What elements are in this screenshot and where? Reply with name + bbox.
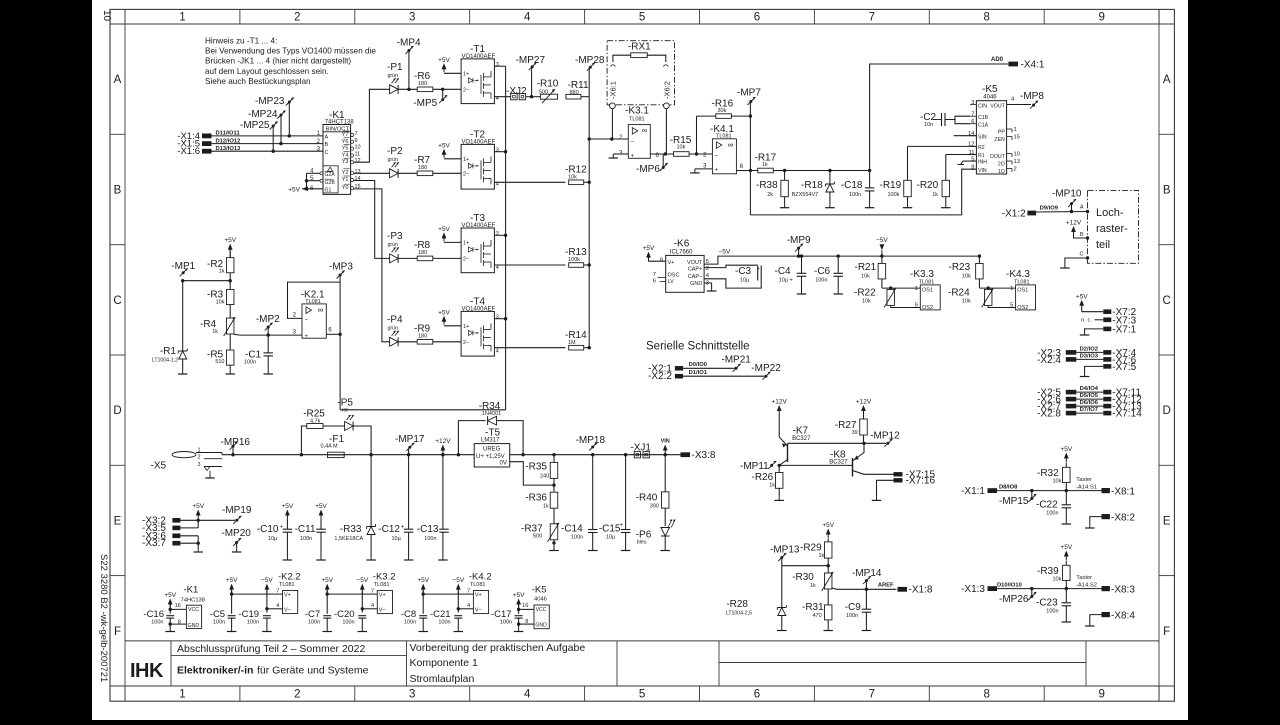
resistor R29 (800, 539, 832, 573)
connector X1:2 with net D9/IO9 (1002, 205, 1089, 220)
svg-text:-X2:8: -X2:8 (1037, 409, 1061, 420)
svg-text:8: 8 (984, 689, 990, 701)
svg-text:1k: 1k (212, 329, 218, 335)
svg-text:2: 2 (294, 12, 300, 24)
resistor R39 (1037, 561, 1070, 590)
svg-text:7: 7 (276, 588, 279, 594)
svg-text:F: F (114, 626, 121, 638)
svg-text:-C23: -C23 (1036, 598, 1058, 609)
svg-text:SIN: SIN (978, 134, 987, 140)
+12V arrow at C13 node (435, 438, 451, 456)
svg-text:Y3: Y3 (342, 159, 349, 165)
svg-text:10µ: 10µ (740, 278, 750, 284)
svg-text:-X3:7: -X3:7 (142, 538, 166, 549)
svg-text:100n: 100n (424, 536, 436, 542)
resistor RX1 (610, 53, 668, 67)
wire T3 pin4 to R13 (494, 264, 565, 266)
svg-text:-P1: -P1 (387, 62, 403, 73)
svg-text:−5V: −5V (876, 237, 888, 244)
svg-text:2−: 2− (463, 172, 469, 178)
measurement point MP14 (852, 568, 882, 589)
frame column numbers top and bottom (125, 9, 1159, 701)
svg-text:180: 180 (418, 81, 427, 87)
connector X8:3 (1102, 585, 1136, 596)
wire R21 to K3.3 pin1 (882, 279, 920, 290)
svg-text:3: 3 (496, 231, 499, 237)
svg-text:C: C (113, 295, 121, 307)
decoder U K1 74HCT138 (310, 110, 360, 194)
measurement point MP3 (329, 262, 353, 283)
svg-text:10µ: 10µ (606, 535, 616, 541)
svg-text:GND: GND (188, 623, 200, 629)
title block profession (177, 665, 369, 677)
wire K1 pin13 to LED P2 (354, 172, 390, 174)
svg-text:-MP28: -MP28 (575, 55, 605, 66)
measurement point MP28 (575, 55, 605, 97)
svg-text:100n: 100n (438, 619, 450, 625)
svg-text:rot: rot (342, 408, 349, 414)
svg-text:-R28: -R28 (726, 599, 748, 610)
svg-text:100n: 100n (571, 535, 583, 541)
zener diode R18 BZX554V7 (792, 171, 835, 208)
resistor R21 (855, 256, 886, 279)
svg-text:CAP+: CAP+ (688, 267, 703, 273)
wire K3.1 output to R15 (650, 153, 673, 155)
connector X7:2 (1103, 307, 1136, 318)
svg-text:-X3:8: -X3:8 (692, 450, 716, 461)
optocoupler T1 VO1400AEF (461, 44, 499, 104)
svg-text:LT1004-1,2: LT1004-1,2 (152, 358, 178, 364)
svg-text:+5V: +5V (643, 245, 655, 252)
svg-text:1k: 1k (219, 269, 225, 275)
svg-text:Bei Verwendung des Typs VO1400: Bei Verwendung des Typs VO1400 müssen di… (205, 47, 376, 56)
svg-text:2: 2 (198, 455, 201, 461)
measurement point MP7 (737, 87, 761, 116)
note text Hinweis zu -T1...4 (205, 37, 376, 86)
svg-text:-C10: -C10 (257, 524, 279, 535)
svg-text:BZX554V7: BZX554V7 (792, 192, 819, 198)
svg-text:+: + (631, 154, 635, 160)
svg-text:100n: 100n (846, 613, 858, 619)
svg-text:V+: V+ (475, 592, 482, 598)
T5 adjust wire to R35/R36 node (510, 462, 554, 485)
svg-text:D6/IO6: D6/IO6 (1080, 400, 1099, 406)
svg-text:−5V: −5V (452, 577, 464, 584)
resistor R26 (752, 465, 784, 500)
svg-text:ICL7660: ICL7660 (670, 249, 693, 255)
svg-text:Loch-: Loch- (1096, 207, 1124, 219)
svg-text:-R26: -R26 (752, 472, 774, 483)
gate bus from T pin3 outputs (494, 66, 507, 410)
svg-text:1k: 1k (819, 553, 825, 559)
svg-text:+5V: +5V (226, 577, 238, 584)
resistor R13 (565, 247, 587, 267)
svg-text:V+: V+ (284, 592, 291, 598)
svg-text:13: 13 (355, 169, 361, 175)
optocoupler T2 VO1400AEF (461, 130, 499, 189)
trimmer R37 (521, 523, 559, 551)
svg-text:IHK: IHK (130, 660, 164, 682)
svg-text:+: + (715, 168, 719, 174)
svg-text:-C3: -C3 (735, 266, 752, 277)
svg-text:100n: 100n (849, 192, 861, 198)
supply block K3.2 with C7 C20 (305, 572, 396, 632)
svg-text:5: 5 (639, 689, 645, 701)
Lochrasterteil dashed block (1088, 190, 1139, 263)
svg-text:-MP26: -MP26 (999, 594, 1029, 605)
wire R13 to summing bus (584, 263, 591, 266)
svg-text:+5V: +5V (438, 309, 450, 316)
svg-text:-A14.S2: -A14.S2 (1076, 583, 1097, 589)
wire R19 to K5 pin12 (908, 145, 977, 147)
resistor R9 (414, 323, 433, 344)
connector X7:5 grounded (1080, 362, 1137, 377)
svg-text:D3/IO3: D3/IO3 (1080, 353, 1099, 359)
svg-text:-R38: -R38 (756, 180, 778, 191)
svg-text:B: B (1080, 232, 1084, 238)
external resistor RX1 dashed block (607, 41, 674, 105)
svg-text:10k: 10k (1053, 479, 1062, 485)
svg-text:10: 10 (101, 10, 112, 22)
connector X1:4 X1:5 X1:6 (177, 131, 211, 157)
measurement point MP1 (171, 261, 195, 282)
connector X2:2 with net D1/IO1 (648, 370, 764, 382)
capacitor C11 (295, 503, 328, 560)
LED P3 (387, 231, 403, 263)
wire R12 to summing bus (584, 181, 591, 184)
svg-text:10: 10 (355, 145, 361, 151)
svg-text:14: 14 (355, 176, 361, 182)
svg-text:-X6:1: -X6:1 (609, 81, 618, 99)
svg-text:A: A (114, 74, 122, 86)
svg-text:100n: 100n (404, 619, 416, 625)
capacitor C23 (1036, 589, 1071, 622)
svg-text:+5V: +5V (282, 503, 294, 510)
svg-text:-MP10: -MP10 (1052, 189, 1082, 200)
LED P5 (323, 398, 371, 455)
svg-text:U+ +1,25V: U+ +1,25V (476, 454, 505, 460)
svg-text:-K1: -K1 (184, 584, 199, 595)
svg-text:Y7: Y7 (342, 132, 349, 138)
svg-text:OSC: OSC (668, 273, 680, 279)
voltage regulator T5 LM317 (474, 428, 510, 468)
PLL K5 4046 (968, 84, 1020, 175)
svg-text:+5V: +5V (164, 592, 176, 599)
svg-text:-K3.3: -K3.3 (910, 269, 934, 280)
measurement point MP16 (221, 437, 251, 456)
svg-text:-MP20: -MP20 (221, 528, 251, 539)
svg-text:−: − (631, 139, 635, 145)
svg-text:-MP25: -MP25 (240, 120, 270, 131)
+5V supply at R39 (1064, 551, 1069, 557)
svg-text:4: 4 (496, 265, 499, 271)
svg-text:180: 180 (418, 333, 427, 339)
measurement point MP23 (255, 96, 294, 138)
potentiometer R4 (200, 305, 235, 337)
charge pump K6 ICL7660 (653, 239, 710, 293)
svg-text:-C22: -C22 (1036, 500, 1058, 511)
trimmer R30 (792, 572, 833, 591)
svg-text:100n: 100n (342, 619, 354, 625)
capacitor C10 electrolytic (257, 503, 294, 560)
svg-text:B: B (114, 184, 122, 196)
measurement point MP15 (999, 489, 1036, 507)
svg-text:-R20: -R20 (917, 180, 939, 191)
wire T1 pin4 to XJ2 (494, 96, 510, 98)
svg-text:1k: 1k (810, 583, 816, 589)
wire K2.1 output to gate bus (326, 282, 505, 410)
connector X8:1 (1102, 487, 1136, 498)
svg-text:Serielle Schnittstelle: Serielle Schnittstelle (646, 341, 750, 353)
svg-text:10k: 10k (862, 299, 871, 305)
svg-text:-K5: -K5 (982, 84, 998, 95)
svg-text:-C11: -C11 (295, 524, 316, 535)
svg-text:9: 9 (1098, 12, 1104, 24)
svg-text:100n: 100n (815, 278, 827, 284)
+5V supply above R2 (228, 244, 233, 250)
resistor R40 (636, 455, 669, 526)
svg-text:880: 880 (570, 90, 579, 96)
svg-text:Hinweis zu -T1 ... 4:: Hinweis zu -T1 ... 4: (205, 37, 277, 46)
+5V arrow for T3 (442, 232, 447, 238)
connector X5 jack (151, 448, 223, 479)
svg-text:4: 4 (524, 689, 531, 701)
svg-text:12: 12 (355, 158, 361, 164)
trimmer R22 (854, 288, 920, 308)
+5V arrow at X3:2 (196, 510, 201, 516)
svg-text:-R29: -R29 (800, 543, 822, 554)
svg-text:D4/IO4: D4/IO4 (1080, 386, 1099, 392)
svg-text:TL081: TL081 (374, 582, 390, 588)
svg-text:A: A (1163, 74, 1171, 86)
resistor R6 (414, 71, 433, 92)
connector X6:1 (609, 81, 618, 109)
summing bus vertical (588, 97, 590, 348)
svg-text:-MP18: -MP18 (576, 435, 606, 446)
svg-text:-MP1: -MP1 (171, 261, 195, 272)
svg-text:VOUT: VOUT (990, 103, 1005, 109)
wire X6:2 to K3.1 output (664, 109, 667, 156)
svg-text:100n: 100n (244, 359, 256, 365)
svg-text:10µ: 10µ (268, 536, 278, 542)
svg-text:-C15: -C15 (599, 524, 621, 535)
svg-text:-K3.2: -K3.2 (373, 572, 396, 583)
svg-text:-R39: -R39 (1037, 566, 1059, 577)
svg-text:R2: R2 (978, 145, 985, 151)
svg-text:-X1:8: -X1:8 (909, 585, 933, 596)
wire +5V to K6 pin8 (649, 260, 666, 262)
svg-text:∞: ∞ (318, 305, 324, 314)
svg-text:Taster: Taster (1076, 575, 1092, 581)
svg-text:1+: 1+ (463, 324, 469, 330)
svg-text:10k: 10k (962, 274, 971, 280)
svg-text:G2B: G2B (325, 180, 336, 186)
svg-text:D7/IO7: D7/IO7 (1080, 407, 1098, 413)
resistor R27 (835, 399, 872, 445)
svg-text:S22 3280 B2 -wk-gelb-200721: S22 3280 B2 -wk-gelb-200721 (98, 554, 109, 682)
svg-text:Y6: Y6 (342, 139, 349, 145)
measurement point MP19 (222, 505, 252, 524)
svg-text:7: 7 (869, 689, 875, 701)
svg-text:4046: 4046 (534, 597, 547, 603)
svg-text:VOUT: VOUT (687, 260, 703, 266)
svg-text:100n: 100n (1046, 511, 1058, 517)
connector X7:6 (1103, 355, 1136, 366)
resistor R32 (1037, 463, 1070, 492)
capacitor C3 (704, 265, 761, 288)
connector X1:3 with net D10/IO10 (961, 583, 1101, 596)
svg-text:2−: 2− (463, 257, 469, 263)
svg-text:OS1: OS1 (1017, 288, 1028, 294)
svg-text:CIN: CIN (978, 103, 987, 109)
wire R20 to K5 pin11 (946, 154, 977, 156)
svg-text:-MP8: -MP8 (1020, 91, 1044, 102)
connector X2:3 with net D2/IO2 (1037, 346, 1103, 358)
svg-text:∞: ∞ (728, 140, 734, 149)
svg-text:D: D (1163, 405, 1171, 417)
connector X8:4 grounded (1085, 611, 1135, 627)
svg-text:2: 2 (294, 689, 300, 701)
svg-text:-MP6: -MP6 (636, 164, 660, 175)
svg-text:-RX1: -RX1 (628, 41, 651, 52)
svg-text:6: 6 (754, 689, 760, 701)
svg-text:-C4: -C4 (775, 266, 792, 277)
svg-text:1O: 1O (998, 169, 1005, 175)
svg-text:-R19: -R19 (880, 180, 902, 191)
svg-text:100n: 100n (308, 619, 320, 625)
wire summing bus to K3.1 inverting input (588, 137, 629, 140)
connector X3:8 (681, 450, 716, 461)
svg-text:3: 3 (409, 12, 415, 24)
svg-text:+5V: +5V (822, 522, 834, 529)
resistor R11 (566, 80, 589, 99)
svg-text:5: 5 (639, 12, 645, 24)
svg-text:-R23: -R23 (949, 262, 971, 273)
svg-text:+5V: +5V (321, 577, 333, 584)
svg-text:100n: 100n (1046, 609, 1058, 615)
svg-text:INH: INH (978, 160, 987, 166)
svg-text:-MP17: -MP17 (395, 434, 425, 445)
wire R4 wiper to K2.1 (234, 333, 302, 336)
+5V supply at R32 (1064, 453, 1069, 459)
svg-text:-X4:1: -X4:1 (1021, 59, 1045, 70)
capacitor C1 (244, 335, 273, 374)
capacitor C4 (775, 254, 807, 294)
svg-text:-A14.S1: -A14.S1 (1076, 485, 1097, 491)
svg-text:PP: PP (998, 130, 1005, 136)
svg-text:-MP4: -MP4 (397, 37, 421, 48)
wires X1 to K1 inputs (212, 136, 324, 151)
K6 GND pin to ground (704, 283, 716, 291)
optocoupler T4 VO1400AEF (461, 297, 499, 357)
svg-text:C: C (325, 150, 329, 156)
svg-text:390: 390 (650, 504, 659, 510)
svg-text:0V: 0V (500, 461, 507, 467)
svg-text:16: 16 (522, 603, 528, 609)
svg-text:1k: 1k (762, 162, 768, 168)
svg-text:0,4A M: 0,4A M (321, 443, 339, 449)
svg-text:OS2: OS2 (1017, 305, 1028, 311)
resistor R31 (802, 589, 833, 630)
svg-text:−5V: −5V (719, 249, 731, 256)
measurement point MP26 (999, 587, 1036, 605)
fuse F1 (321, 434, 345, 458)
wire K7 base to R27 node (788, 442, 865, 444)
svg-text:V+: V+ (379, 592, 386, 598)
svg-text:+: + (305, 334, 309, 340)
svg-text:Siehe auch Bestückungsplan: Siehe auch Bestückungsplan (205, 77, 311, 86)
svg-text:+5V: +5V (417, 577, 429, 584)
svg-text:LM317: LM317 (481, 438, 500, 444)
LED P4 (387, 314, 403, 346)
svg-text:Y1: Y1 (342, 177, 349, 183)
wire LED to T3 (398, 257, 461, 259)
resistor R12 (565, 165, 587, 185)
feedback wire to R16 (697, 116, 716, 154)
svg-text:11: 11 (355, 151, 361, 157)
svg-text:3: 3 (496, 62, 499, 68)
svg-text:5: 5 (1010, 303, 1013, 309)
measurement point MP25 (240, 120, 278, 153)
svg-text:-X2:2: -X2:2 (648, 371, 672, 382)
wire XJ2 to R10 (526, 95, 540, 98)
K1 enable wiring to +5V (288, 173, 323, 193)
svg-text:-C18: -C18 (841, 180, 863, 191)
svg-text:-R40: -R40 (636, 493, 658, 504)
+5V arrow for T2 (442, 149, 447, 155)
+5V supply at K6 (646, 252, 651, 258)
VIN arrow label (661, 439, 670, 457)
net labels D11/IO11 D12/IO12 D13/IO13 (216, 131, 242, 152)
svg-text:-MP19: -MP19 (222, 505, 252, 516)
measurement point MP9 (787, 235, 811, 258)
svg-text:9: 9 (355, 138, 358, 144)
svg-text:10k: 10k (962, 299, 971, 305)
svg-text:für Geräte und Systeme: für Geräte und Systeme (257, 665, 369, 677)
svg-text:-X1:2: -X1:2 (1002, 209, 1026, 220)
connectors X2:5-X2:8 to X7:11-X7:14 (1037, 386, 1142, 420)
transistor K8 BC327 (829, 443, 893, 476)
connector X6:2 (663, 81, 672, 109)
svg-text:-X7:16: -X7:16 (906, 476, 936, 487)
wire AD0 to X4:1 (870, 57, 1009, 170)
svg-text:5: 5 (915, 303, 918, 309)
svg-text:+12V: +12V (435, 438, 451, 445)
title block outline (125, 641, 1159, 686)
svg-text:D: D (113, 405, 121, 417)
svg-text:-R36: -R36 (525, 493, 547, 504)
svg-text:+5V: +5V (513, 592, 525, 599)
svg-text:2−: 2− (463, 88, 469, 94)
svg-text:TL081: TL081 (279, 582, 295, 588)
svg-text:2−: 2− (463, 340, 469, 346)
trimmer R24 (948, 288, 1016, 308)
resistor R7 (414, 155, 433, 176)
svg-text:1: 1 (1010, 286, 1013, 292)
capacitor C9 (845, 589, 871, 630)
ground at K3.1 non-inverting input (609, 154, 629, 158)
connector X8:2 grounded (1085, 513, 1135, 529)
svg-text:BC327: BC327 (829, 460, 848, 466)
svg-text:-MP24: -MP24 (248, 109, 278, 120)
+5V supply at R29 (826, 529, 831, 535)
svg-text:8: 8 (984, 12, 990, 24)
svg-text:1: 1 (179, 12, 185, 24)
resistor R8 (414, 240, 433, 261)
wire K4.1 output (737, 169, 758, 172)
svg-text:3: 3 (409, 689, 415, 701)
connector X1:8 (898, 585, 933, 596)
